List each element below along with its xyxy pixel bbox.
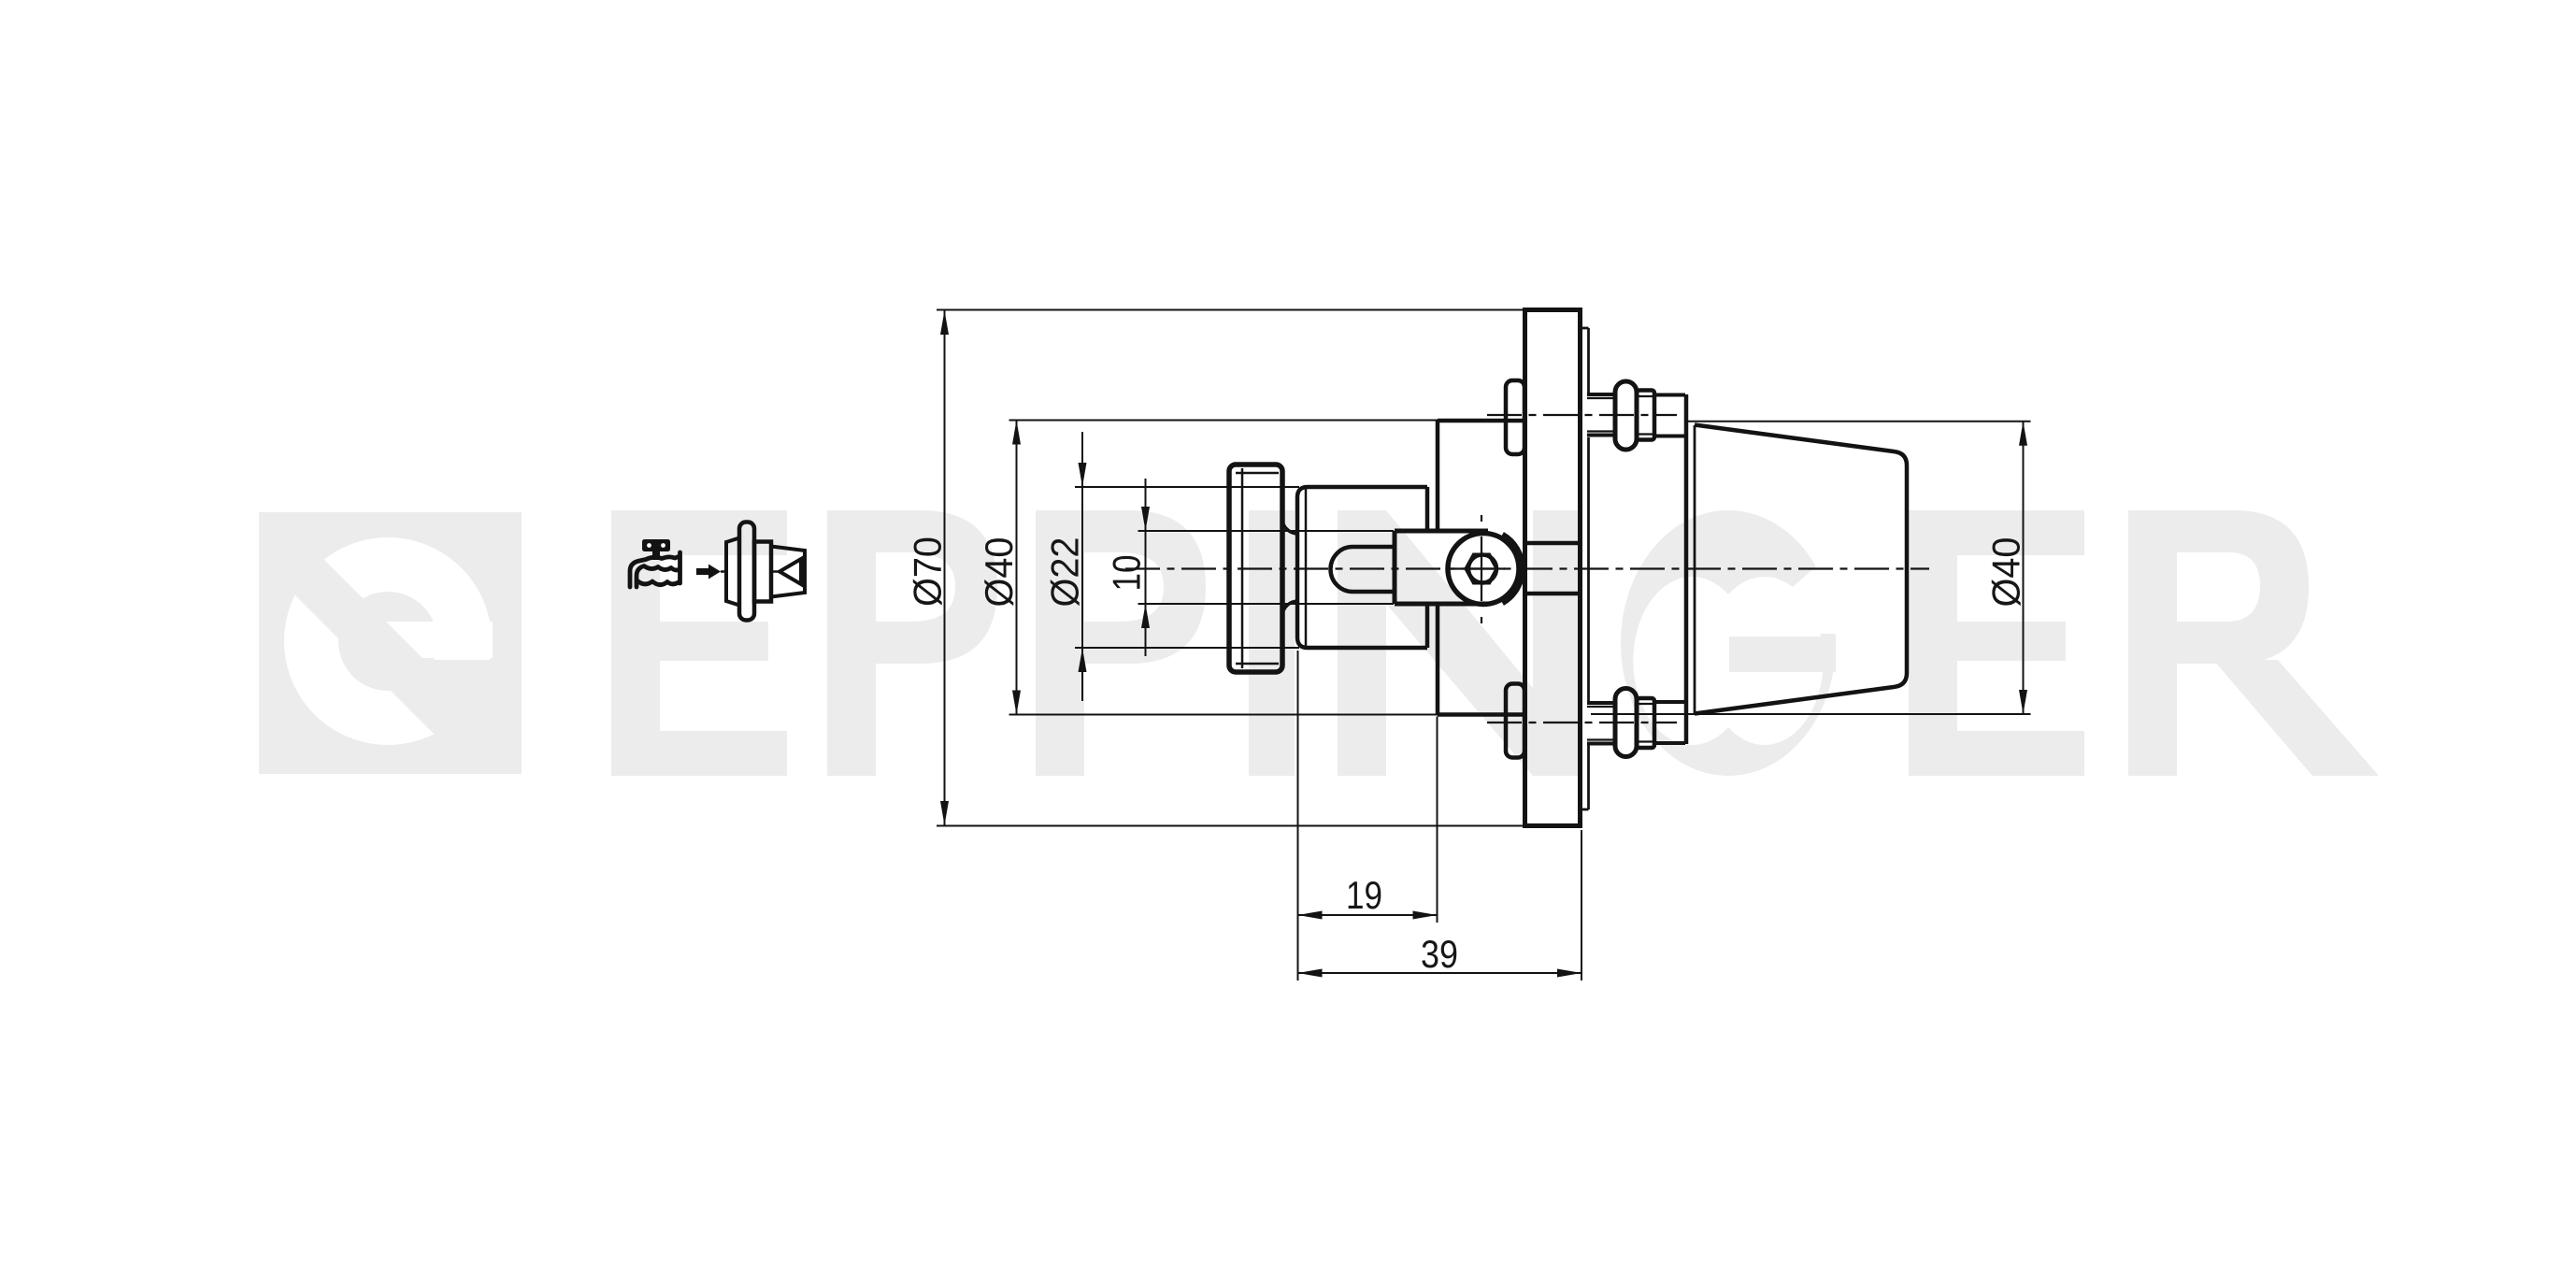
slot through flange — [1525, 541, 1581, 546]
clamp screw head — [1447, 515, 1524, 623]
collet body Ø22 cylinder — [1282, 487, 1427, 648]
top stud bolt — [1487, 381, 1685, 450]
watermark letter G — [1621, 510, 1862, 776]
svg-text:Ø40: Ø40 — [1984, 537, 2028, 608]
tool holder mini icon — [696, 522, 805, 621]
watermark letter N — [1338, 510, 1581, 776]
svg-text:10: 10 — [1105, 555, 1149, 592]
bottom mounting screw head (front) — [1506, 684, 1524, 758]
coolant tap icon — [630, 539, 680, 587]
watermark letter I — [1249, 510, 1295, 776]
dimension 10 — [1105, 479, 1395, 656]
clamp screw block — [1395, 531, 1488, 604]
main centerline — [1125, 567, 1929, 569]
watermark letter P — [1036, 510, 1206, 776]
flange plate — [1525, 310, 1581, 826]
dimension Ø40 right — [1591, 422, 2031, 714]
svg-text:39: 39 — [1421, 932, 1458, 976]
bottom stud bolt — [1487, 689, 1685, 757]
svg-text:19: 19 — [1346, 873, 1382, 917]
top mounting screw head (front) — [1506, 380, 1524, 454]
clamping nut — [1229, 465, 1282, 672]
svg-text:Ø22: Ø22 — [1043, 537, 1087, 608]
dimension Ø40 left — [977, 421, 1438, 715]
dimension Ø70 — [906, 310, 1525, 826]
watermark letter P — [827, 510, 997, 776]
taper cone — [1686, 394, 1907, 744]
watermark letter R — [2128, 510, 2379, 776]
watermark letter E — [611, 510, 787, 776]
svg-text:Ø40: Ø40 — [977, 537, 1021, 608]
watermark letter E — [1909, 510, 2084, 776]
slot in screw block — [1331, 547, 1395, 592]
Ø40 boss — [1438, 421, 1525, 715]
dimension 19 — [1298, 717, 1438, 923]
dimension 39 — [1298, 651, 1582, 980]
dimension Ø22 — [1043, 432, 1300, 701]
svg-text:Ø70: Ø70 — [906, 537, 950, 607]
rear plate — [1581, 328, 1589, 809]
